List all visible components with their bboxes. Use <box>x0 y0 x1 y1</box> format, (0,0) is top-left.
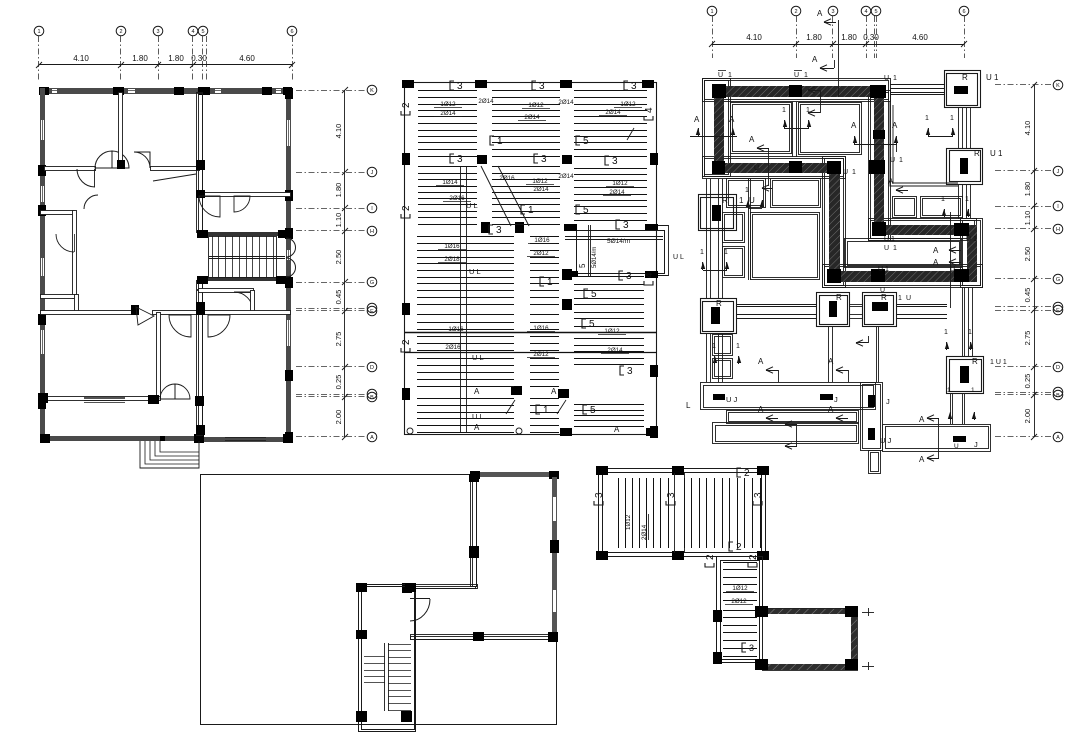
bottom tail strip <box>869 451 881 474</box>
svg-text:2Ø18: 2Ø18 <box>444 256 460 263</box>
svg-text:U L: U L <box>673 254 684 261</box>
slab small diagonals row5 <box>506 400 515 414</box>
svg-text:2Ø16: 2Ø16 <box>499 175 515 182</box>
svg-text:A: A <box>551 387 557 396</box>
svg-text:U 1: U 1 <box>966 236 977 243</box>
stair corner blocks <box>197 230 208 238</box>
porch steps nested <box>140 441 199 468</box>
svg-text:5: 5 <box>591 289 597 300</box>
svg-text:U: U <box>950 266 955 273</box>
slab bottom column blocks <box>560 428 572 436</box>
svg-text:A: A <box>919 415 925 424</box>
svg-text:4.60: 4.60 <box>912 33 928 42</box>
svg-text:1.80: 1.80 <box>334 183 343 198</box>
slab vertical beam double lines left <box>460 167 462 432</box>
slab panel row4 mid hatch <box>530 314 559 316</box>
UJ junction column <box>861 383 883 451</box>
svg-text:R: R <box>836 293 842 302</box>
svg-text:2Ø14: 2Ø14 <box>605 109 621 116</box>
pad footing R1 U1 right lower <box>947 357 984 394</box>
svg-text:L: L <box>686 401 691 410</box>
svg-text:3: 3 <box>457 154 463 165</box>
svg-text:U L: U L <box>466 201 478 210</box>
svg-text:3: 3 <box>623 220 629 231</box>
svg-text:3: 3 <box>156 29 159 35</box>
svg-text:1.80: 1.80 <box>841 33 857 42</box>
dark footing band vertical grid4 <box>874 97 884 225</box>
top wall column blocks <box>39 87 49 95</box>
stair slab top rect <box>599 469 766 557</box>
svg-text:1.80: 1.80 <box>806 33 822 42</box>
slab panel row3 left hatch <box>417 236 514 238</box>
UJ strip 1 <box>701 383 876 410</box>
triangle door <box>136 307 154 325</box>
slab panel row4 right hatch <box>574 332 644 334</box>
dash arrow bottom <box>785 421 792 427</box>
svg-text:K: K <box>1056 83 1060 89</box>
strip footing boundary H horizontal <box>869 219 977 241</box>
svg-text:A: A <box>892 121 898 130</box>
svg-text:2Ø12: 2Ø12 <box>533 250 549 257</box>
svg-text:2Ø14: 2Ø14 <box>641 524 648 540</box>
balcony corner blocks <box>564 224 577 231</box>
section line A top <box>838 20 840 97</box>
svg-text:J: J <box>834 395 838 404</box>
pad footing R top-right <box>945 71 981 108</box>
svg-text:2.50: 2.50 <box>334 250 343 265</box>
room divider vertical grid2 <box>792 102 794 157</box>
small boxes left below pad4 <box>713 335 733 356</box>
svg-text:1: 1 <box>950 115 954 122</box>
svg-text:U L: U L <box>472 353 484 362</box>
dark footing band mid vertical <box>829 163 840 282</box>
slab rotated section marks left edge <box>401 102 412 115</box>
svg-text:1: 1 <box>965 196 969 203</box>
svg-text:A: A <box>812 55 818 64</box>
A arrow horizontal top <box>820 65 827 71</box>
landing right ticks <box>862 612 874 614</box>
floor plan outer walls <box>40 88 291 94</box>
floor plan top grid dashed lines <box>38 36 40 80</box>
svg-text:1: 1 <box>899 157 903 164</box>
svg-text:A: A <box>817 9 823 18</box>
svg-text:1Ø12: 1Ø12 <box>440 101 456 108</box>
svg-text:6: 6 <box>290 29 293 35</box>
staircase floor plan <box>199 232 291 236</box>
roof interior wall vertical x474 <box>471 477 477 587</box>
svg-text:4.10: 4.10 <box>73 54 89 63</box>
svg-text:U 1: U 1 <box>986 73 999 82</box>
svg-text:5: 5 <box>578 263 587 268</box>
floor plan right grid dash lines <box>296 90 366 92</box>
roof interior wall y637 <box>411 635 554 640</box>
svg-text:3: 3 <box>626 271 632 282</box>
svg-text:2.75: 2.75 <box>1023 331 1032 346</box>
svg-text:J: J <box>371 170 374 176</box>
svg-text:U: U <box>843 169 848 176</box>
svg-text:1: 1 <box>944 329 948 336</box>
foundation right grid bubbles <box>1053 80 1063 90</box>
roof stair treads right flight <box>388 644 411 646</box>
dark footing band left vertical <box>714 86 724 171</box>
svg-text:1: 1 <box>543 405 549 416</box>
foundation top grid dash lines <box>712 16 714 58</box>
svg-text:U 1: U 1 <box>878 266 889 273</box>
svg-text:1: 1 <box>712 343 716 350</box>
svg-text:1: 1 <box>782 107 786 114</box>
svg-text:U: U <box>906 295 911 302</box>
slab left column blocks <box>402 153 410 165</box>
svg-text:A: A <box>828 405 834 414</box>
stair slab vertical rect hatch <box>723 562 757 564</box>
roof stair treads left flight <box>364 656 385 658</box>
svg-text:5: 5 <box>583 205 589 216</box>
vertical strips pad5 pad6 down <box>828 327 830 382</box>
svg-text:A: A <box>474 423 480 432</box>
corridor wall y=194 right side <box>199 193 291 197</box>
strip pad1-pad2 vertical <box>958 108 960 148</box>
svg-text:3: 3 <box>457 81 463 92</box>
pad footing R bottom mid2 <box>863 293 897 327</box>
svg-text:4.10: 4.10 <box>334 124 343 139</box>
arrows up at pad7 connectors <box>948 412 952 419</box>
floor plan right dimension line <box>344 90 346 437</box>
foundation top grid bubbles <box>707 6 717 16</box>
slab top column blocks <box>402 80 414 88</box>
svg-text:5: 5 <box>583 136 589 147</box>
svg-text:1: 1 <box>700 249 704 256</box>
svg-text:3: 3 <box>539 81 545 92</box>
dark footing band top <box>714 86 886 97</box>
svg-text:4: 4 <box>644 272 655 278</box>
svg-text:3: 3 <box>594 492 605 498</box>
stair bottom section marks <box>742 643 754 653</box>
svg-text:2Ø14: 2Ø14 <box>440 110 456 117</box>
svg-text:A: A <box>933 258 939 267</box>
svg-text:3: 3 <box>496 225 502 236</box>
stair slab top rect corner blocks <box>596 466 608 475</box>
svg-text:R: R <box>972 357 978 366</box>
svg-text:G: G <box>370 280 374 286</box>
slab section marks row2 <box>521 205 534 216</box>
slab panel row5 mid hatch <box>530 398 559 400</box>
foundation top-left room 1 <box>731 103 792 154</box>
UJ far right strip <box>883 425 991 452</box>
strip pad6 to right <box>896 304 947 306</box>
svg-text:5Ø14/m: 5Ø14/m <box>592 247 598 268</box>
foundation top dimension line <box>712 44 964 46</box>
svg-text:2Ø14: 2Ø14 <box>609 189 625 196</box>
svg-text:3: 3 <box>541 154 547 165</box>
svg-text:0.45: 0.45 <box>1023 288 1032 303</box>
svg-text:2Ø16: 2Ø16 <box>445 344 461 351</box>
dash arrow right mid <box>808 87 815 93</box>
foundation right dimension line <box>1034 85 1036 437</box>
svg-text:2.50: 2.50 <box>1023 247 1032 262</box>
strip footing boundary vertical grid4 <box>869 91 891 241</box>
svg-text:U: U <box>718 72 723 79</box>
svg-text:2.75: 2.75 <box>334 332 343 347</box>
svg-text:1: 1 <box>852 169 856 176</box>
svg-text:3: 3 <box>612 156 618 167</box>
roof stair shaft <box>359 585 416 732</box>
right outer wall <box>286 88 291 441</box>
svg-text:1Ø16: 1Ø16 <box>533 325 549 332</box>
A arrows right rooms <box>949 247 956 253</box>
svg-text:2Ø14: 2Ø14 <box>524 114 540 121</box>
arch door leaf right <box>134 152 150 168</box>
svg-text:2: 2 <box>736 542 742 553</box>
svg-text:K: K <box>370 88 374 94</box>
strip pad5 pad6 connectors <box>850 304 862 306</box>
A arrows above UJ strip1 <box>766 367 773 373</box>
slab section marks row3 <box>489 225 502 236</box>
right room boundary below pad1 <box>890 102 958 186</box>
svg-text:D: D <box>1056 365 1060 371</box>
left outer wall <box>40 88 45 440</box>
A arrow mid-left <box>757 145 764 151</box>
slab panel row4 left hatch <box>417 314 514 316</box>
horizontal strip pad4-pad5 <box>736 304 817 306</box>
svg-text:0.30: 0.30 <box>191 54 207 63</box>
svg-text:0.25: 0.25 <box>334 375 343 390</box>
main wall E y=313 <box>41 311 136 315</box>
A arrows H band <box>896 187 903 193</box>
svg-text:U L: U L <box>472 412 484 421</box>
strip footing boundary right vertical <box>961 219 983 288</box>
stair slab vertical rect <box>717 557 763 663</box>
svg-text:1: 1 <box>804 72 808 79</box>
svg-text:2: 2 <box>401 339 412 345</box>
svg-text:1Ø12: 1Ø12 <box>528 102 544 109</box>
svg-text:1.10: 1.10 <box>1023 211 1032 226</box>
slab bottom border circle marks <box>407 428 413 434</box>
svg-text:1: 1 <box>925 115 929 122</box>
pad7 connector to UJ <box>950 394 952 424</box>
svg-text:3: 3 <box>627 366 633 377</box>
svg-text:1: 1 <box>898 295 902 302</box>
strip footing boundary bottom horizontal <box>823 265 983 288</box>
svg-text:1Ø12: 1Ø12 <box>732 585 748 592</box>
vestibule door arc lower-left <box>77 169 95 187</box>
svg-text:2: 2 <box>119 29 122 35</box>
svg-text:2Ø14: 2Ø14 <box>478 98 494 105</box>
svg-text:4: 4 <box>644 107 655 113</box>
svg-text:2Ø14: 2Ø14 <box>558 173 574 180</box>
svg-text:2Ø14: 2Ø14 <box>533 186 549 193</box>
svg-text:U: U <box>954 443 959 450</box>
svg-text:2: 2 <box>401 102 412 108</box>
interior double wall x=199 full height <box>197 93 203 194</box>
svg-text:U: U <box>880 287 885 294</box>
svg-text:A: A <box>758 405 764 414</box>
slab stair diagonals <box>481 166 511 226</box>
roof outer boundary <box>201 475 557 725</box>
landing dark rectangle <box>762 608 857 614</box>
svg-text:H: H <box>1056 227 1060 233</box>
svg-text:1Ø16: 1Ø16 <box>444 243 460 250</box>
strip footing outer boundary left vertical <box>703 79 731 177</box>
svg-text:0.30: 0.30 <box>863 33 879 42</box>
svg-text:4: 4 <box>864 9 867 15</box>
svg-text:1: 1 <box>941 196 945 203</box>
svg-text:A: A <box>474 387 480 396</box>
top wall window gaps <box>52 89 57 93</box>
right wall column blocks <box>285 88 293 99</box>
roof upper room right wall <box>552 477 557 637</box>
svg-text:5: 5 <box>201 29 204 35</box>
stair slab top-left panel vertical hatch <box>618 478 620 548</box>
A arrow bottom right <box>927 415 934 421</box>
svg-text:5: 5 <box>590 405 596 416</box>
dark footing band right vertical <box>967 225 977 282</box>
double door bottom arcs <box>160 384 175 399</box>
svg-text:R: R <box>974 149 980 158</box>
interior wall row J <box>45 167 96 171</box>
svg-text:A: A <box>1056 435 1060 441</box>
vertical strip below S5 right <box>962 288 964 357</box>
svg-text:U: U <box>884 75 889 82</box>
svg-text:2.00: 2.00 <box>334 410 343 425</box>
svg-text:1: 1 <box>971 387 975 394</box>
svg-text:J: J <box>886 397 890 406</box>
svg-text:A: A <box>749 135 755 144</box>
floor plan right grid bubbles K-A <box>367 85 377 95</box>
svg-text:A: A <box>614 425 620 434</box>
foundation top-left room 2 <box>799 103 862 155</box>
svg-text:2Ø14: 2Ø14 <box>607 347 623 354</box>
svg-text:1Ø12: 1Ø12 <box>620 101 636 108</box>
svg-text:A: A <box>828 357 834 366</box>
svg-text:1Ø16: 1Ø16 <box>448 326 464 333</box>
svg-text:1 U 1: 1 U 1 <box>990 359 1007 366</box>
svg-text:U: U <box>890 157 895 164</box>
svg-text:R: R <box>962 73 968 82</box>
svg-text:U: U <box>754 165 759 172</box>
section line 1 vertical right <box>950 212 952 308</box>
svg-text:U: U <box>794 72 799 79</box>
dark footing band H horizontal <box>874 225 970 235</box>
roof interior wall y587 <box>415 585 478 589</box>
left wall column blocks <box>38 165 46 176</box>
svg-text:U 1: U 1 <box>884 236 895 243</box>
wall segment x=253 y290-313 <box>251 291 255 314</box>
room between H and G bands <box>845 239 962 268</box>
footing band column blocks <box>712 84 726 98</box>
left strip pad4 to bottom strips <box>706 334 708 382</box>
strip pad1 to band <box>890 84 944 86</box>
svg-text:2: 2 <box>744 468 750 479</box>
slab section marks row: top <box>450 81 463 92</box>
svg-text:U L: U L <box>469 267 481 276</box>
UJ bottom wide strip <box>713 423 859 444</box>
closet door arc <box>56 234 74 252</box>
svg-text:1.10: 1.10 <box>334 213 343 228</box>
svg-text:5Ø14/m: 5Ø14/m <box>607 238 630 245</box>
bottom wall window <box>225 438 266 440</box>
svg-text:1: 1 <box>968 329 972 336</box>
svg-text:R: R <box>722 196 728 205</box>
svg-text:3: 3 <box>666 492 677 498</box>
svg-text:2: 2 <box>401 205 412 211</box>
floor plan top dimension line <box>39 64 292 66</box>
UJ strip 2 inner <box>727 411 859 424</box>
pad footing R left lower <box>701 299 737 334</box>
slab panel row2 mid hatch <box>492 166 560 168</box>
svg-text:1.80: 1.80 <box>168 54 184 63</box>
bottom outer wall <box>40 436 200 441</box>
slab panel row3 mid hatch <box>530 236 559 238</box>
svg-text:A: A <box>694 115 700 124</box>
stair slab top rect middle divider <box>674 473 676 553</box>
slab border <box>405 83 657 435</box>
slab long bars full width <box>405 332 657 334</box>
balcony vertical double line <box>588 225 590 277</box>
slab section mark below bump <box>619 271 632 282</box>
svg-text:A: A <box>919 455 925 464</box>
svg-text:1.80: 1.80 <box>132 54 148 63</box>
svg-text:1: 1 <box>745 187 749 194</box>
roof door arc at stair <box>410 598 430 600</box>
section 3 above balcony <box>616 220 629 231</box>
svg-text:4.10: 4.10 <box>1023 121 1032 136</box>
left boundary strip below J <box>706 179 708 299</box>
svg-text:1: 1 <box>893 75 897 82</box>
slab panel row5 left hatch <box>417 398 514 400</box>
svg-text:2Ø12: 2Ø12 <box>731 598 747 605</box>
svg-text:1: 1 <box>497 136 503 147</box>
svg-text:6: 6 <box>962 9 965 15</box>
room wall below stair y=290 <box>199 289 254 293</box>
svg-text:3: 3 <box>749 643 754 653</box>
svg-text:3: 3 <box>753 492 764 498</box>
bottom wall window right room <box>225 437 266 439</box>
svg-text:2: 2 <box>705 554 716 560</box>
svg-text:D: D <box>370 365 374 371</box>
double arc doors at hall <box>169 315 191 337</box>
floor plan top grid bubbles 1-6 <box>34 26 44 36</box>
landing corner blocks <box>755 606 768 617</box>
svg-text:1Ø14: 1Ø14 <box>442 179 458 186</box>
svg-text:A: A <box>933 246 939 255</box>
svg-text:5: 5 <box>589 319 595 330</box>
svg-text:U: U <box>749 196 755 205</box>
slab panel row5 right hatch <box>574 404 644 406</box>
slab panel row2 right hatch <box>574 168 647 170</box>
svg-text:U J: U J <box>726 395 738 404</box>
slab interior column blocks <box>477 155 487 164</box>
dash arrow right of J <box>856 340 863 346</box>
svg-text:1Ø12: 1Ø12 <box>625 514 632 530</box>
svg-text:R: R <box>716 299 722 308</box>
dark footing band bottom horizontal <box>829 271 977 282</box>
corridor door arcs <box>199 196 220 217</box>
A arrows below UJ strip2 <box>766 415 773 421</box>
svg-text:1: 1 <box>710 9 713 15</box>
svg-text:1Ø12: 1Ø12 <box>532 178 548 185</box>
stair slab top-right panel vertical hatch <box>684 478 686 548</box>
slab rotated section marks right edge <box>644 107 655 120</box>
svg-text:U: U <box>884 245 889 252</box>
interior wall x=158 bottom left <box>157 313 161 399</box>
pad footing R right second <box>947 149 983 185</box>
svg-text:2Ø12: 2Ø12 <box>533 351 549 358</box>
slab panel row3 right hatch <box>574 276 644 278</box>
slab panel row1 right hatch <box>574 90 647 92</box>
svg-text:4: 4 <box>191 29 194 35</box>
interior wall x=121 top rooms <box>119 93 123 169</box>
svg-text:2.00: 2.00 <box>1023 409 1032 424</box>
